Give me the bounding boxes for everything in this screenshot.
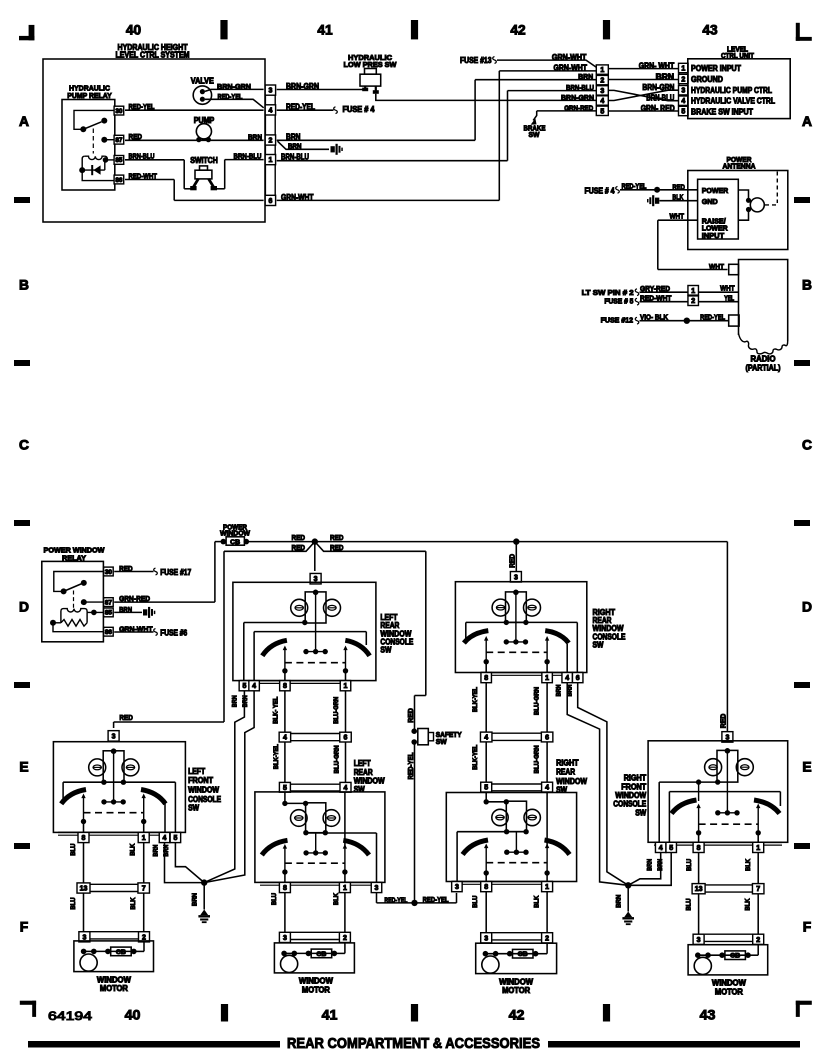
svg-text:BLU-GRN: BLU-GRN (333, 696, 340, 723)
svg-text:MOTOR: MOTOR (502, 986, 530, 995)
svg-text:5: 5 (173, 835, 177, 842)
svg-text:ANTENNA: ANTENNA (723, 162, 757, 171)
svg-text:30: 30 (115, 108, 123, 115)
svg-text:7: 7 (142, 886, 146, 893)
connector C3 strip (679, 63, 688, 116)
connector C2 pin 5 (596, 106, 608, 115)
connector C1 pin 6 (265, 195, 275, 205)
svg-text:1: 1 (681, 66, 685, 73)
relay K1 pin 86 (114, 175, 124, 184)
switch RIGHT REAR WINDOW SW (446, 758, 587, 882)
switch BRAKE SW and wire GRN-RED (524, 103, 597, 139)
svg-text:BLU-GRN: BLU-GRN (533, 687, 540, 715)
svg-text:B: B (802, 277, 812, 293)
svg-text:BLU: BLU (70, 897, 77, 909)
svg-text:6: 6 (545, 735, 549, 742)
svg-text:4: 4 (283, 735, 287, 742)
svg-text:MOTOR: MOTOR (715, 987, 743, 996)
svg-text:BLK: BLK (130, 897, 137, 909)
svg-text:SW: SW (529, 130, 541, 139)
wire RED drop to right rear console pin3 (510, 542, 517, 572)
svg-text:LEFT: LEFT (354, 759, 371, 768)
svg-text:3: 3 (514, 574, 518, 581)
svg-text:5: 5 (600, 108, 604, 115)
svg-text:BRN: BRN (192, 893, 199, 906)
svg-text:RED: RED (672, 182, 685, 191)
svg-text:3: 3 (484, 935, 488, 942)
svg-text:85: 85 (105, 610, 113, 617)
wire BLK-YEL left console pin8 down (273, 691, 285, 732)
svg-text:CB: CB (230, 539, 240, 546)
svg-text:WINDOW: WINDOW (97, 975, 132, 984)
svg-text:2: 2 (268, 138, 272, 145)
wire GRN-RED relay87 to CB (114, 542, 222, 604)
svg-text:BRN: BRN (657, 859, 664, 871)
wire BLK right front pin1 down (745, 853, 758, 884)
connector C1 pin 4 (265, 105, 275, 115)
svg-text:FUSE # 5: FUSE # 5 (604, 297, 633, 306)
module LEVEL CTRL UNIT (688, 44, 790, 118)
svg-text:BRAKE SW INPUT: BRAKE SW INPUT (691, 107, 753, 116)
svg-text:REAR COMPARTMENT & ACCESSORIES: REAR COMPARTMENT & ACCESSORIES (287, 1036, 540, 1052)
svg-text:RED: RED (510, 554, 517, 568)
svg-text:FUSE # 4: FUSE # 4 (343, 105, 376, 114)
svg-text:5: 5 (242, 683, 246, 690)
svg-text:FUSE #17: FUSE #17 (160, 568, 191, 577)
connector C2 pin 2 (596, 75, 608, 84)
svg-text:BLU-GRN: BLU-GRN (534, 745, 541, 773)
connector C2 pin 4 (596, 96, 608, 105)
svg-text:CONSOLE: CONSOLE (613, 800, 646, 809)
svg-text:4: 4 (545, 785, 549, 792)
svg-text:4: 4 (565, 675, 569, 682)
wire WHT antenna raise/lower to radio (658, 211, 728, 269)
connector C3 pin 3 (679, 86, 689, 95)
switch RIGHT FRONT WINDOW CONSOLE SW (613, 741, 787, 843)
wire RED feed line2 (114, 542, 426, 728)
svg-text:SW: SW (436, 737, 447, 746)
svg-text:RED: RED (721, 714, 728, 729)
wire BRN relay85 to suppressor (114, 605, 155, 618)
svg-text:1: 1 (545, 884, 549, 891)
wire BLU to motor1 (70, 893, 84, 932)
svg-text:43: 43 (702, 23, 718, 38)
svg-text:RED: RED (292, 533, 306, 542)
svg-text:8: 8 (697, 845, 701, 852)
relay K1 pin 87 (114, 135, 124, 144)
wire RED-WHT fuse5 to radio (604, 294, 738, 306)
wire BRN-GRN C2-4 to C3-3 (crossover) (608, 83, 678, 101)
svg-text:PUMP RELAY: PUMP RELAY (67, 91, 112, 100)
relay K2 pin 85 (104, 608, 114, 617)
svg-text:FRONT: FRONT (188, 776, 213, 785)
wire BLU-GRN to left rear window sw pin4 (333, 742, 345, 783)
svg-text:4: 4 (681, 98, 685, 105)
svg-text:FUSE #13: FUSE #13 (460, 56, 492, 65)
svg-text:42: 42 (510, 23, 526, 38)
svg-text:RED: RED (292, 543, 306, 552)
svg-text:41: 41 (317, 23, 333, 38)
svg-text:1: 1 (545, 675, 549, 682)
svg-text:SW: SW (635, 808, 647, 817)
wire BLK-YEL right console pin8 down (472, 683, 486, 732)
switch SWITCH (height ctrl) (190, 156, 218, 191)
svg-text:C: C (802, 437, 812, 453)
wire BLU-GRN left console pin1 down (333, 691, 345, 732)
svg-text:BLK-YEL: BLK-YEL (472, 745, 479, 770)
pump motor PUMP (194, 116, 215, 142)
svg-text:HYDRAULIC VALVE CTRL: HYDRAULIC VALVE CTRL (691, 97, 775, 106)
ground G1 BRN junction (192, 879, 210, 923)
svg-text:E: E (802, 759, 811, 775)
svg-text:CB: CB (316, 951, 326, 958)
svg-text:WINDOW: WINDOW (188, 786, 220, 795)
module POWER ANTENNA box (688, 155, 788, 250)
svg-text:4: 4 (252, 683, 256, 690)
switch LEFT REAR WINDOW CONSOLE SW (233, 582, 414, 680)
svg-text:85: 85 (115, 157, 123, 164)
svg-text:RADIO: RADIO (751, 355, 776, 364)
wire VIO-BLK fuse12 to radio (601, 313, 729, 325)
wire BRN-BLU C2-3 to C3-4 (crossover) (608, 90, 678, 102)
svg-text:BLK: BLK (745, 898, 752, 910)
svg-text:BRN: BRN (232, 695, 239, 707)
wire BLK to motor3 (533, 892, 547, 933)
wire BLK-YEL to right rear window sw pin5 (472, 742, 486, 783)
svg-text:BLK: BLK (333, 893, 340, 905)
svg-text:8: 8 (82, 835, 86, 842)
connector RED-YEL at radio (729, 315, 739, 326)
svg-text:REAR: REAR (556, 768, 575, 777)
connector pins left rear console 5 4 8 1 (239, 681, 351, 691)
module RADIO (PARTIAL) (739, 260, 788, 373)
svg-text:3: 3 (268, 88, 272, 95)
svg-text:2: 2 (681, 77, 685, 84)
svg-text:BLK-YEL: BLK-YEL (472, 687, 479, 712)
connector C3 pin 4 (679, 96, 689, 105)
svg-text:4: 4 (268, 107, 272, 114)
svg-text:64194: 64194 (48, 1009, 92, 1023)
connector C2 pin 1 (596, 65, 608, 74)
svg-text:WINDOW: WINDOW (299, 977, 334, 986)
svg-text:13: 13 (80, 886, 88, 893)
svg-text:40: 40 (125, 1008, 141, 1024)
svg-text:BLU: BLU (70, 843, 77, 855)
svg-text:E: E (19, 759, 28, 775)
hydraulic height level ctrl system box (43, 43, 265, 222)
svg-text:FUSE # 4: FUSE # 4 (585, 186, 616, 195)
svg-text:POWER: POWER (702, 186, 729, 195)
svg-text:BLK- YEL: BLK- YEL (273, 697, 280, 724)
wire BRN-GRN C1-3 to low pres sw (277, 82, 366, 91)
svg-text:13: 13 (695, 886, 703, 893)
svg-text:2: 2 (756, 937, 760, 944)
wire BLU left front pin8 to motor connector (70, 843, 84, 883)
svg-text:3: 3 (455, 884, 459, 891)
svg-text:SWITCH: SWITCH (190, 156, 218, 165)
svg-text:4: 4 (659, 845, 663, 852)
svg-text:BLK: BLK (533, 895, 540, 907)
svg-text:1: 1 (142, 835, 146, 842)
svg-text:1: 1 (691, 288, 695, 295)
svg-text:INPUT: INPUT (702, 231, 725, 240)
svg-text:30: 30 (105, 569, 113, 576)
wire RED-YEL valve to C1-4 (205, 92, 264, 108)
connector pin 3 left front console (108, 731, 119, 742)
connector C2 pin 3 (596, 86, 608, 95)
svg-text:BLU: BLU (686, 859, 693, 871)
svg-text:MOTOR: MOTOR (302, 985, 330, 994)
connector pins right rear console 8 1 4 6 (481, 673, 583, 683)
svg-text:B: B (19, 277, 29, 293)
switch HYDRAULIC LOW PRES SW (344, 53, 398, 94)
wire BRN right console pin6 to ground (566, 683, 628, 886)
svg-text:F: F (20, 919, 28, 935)
svg-text:BRN: BRN (242, 695, 249, 707)
svg-text:3: 3 (697, 937, 701, 944)
svg-text:8: 8 (484, 675, 488, 682)
svg-text:2: 2 (545, 935, 549, 942)
wire GRN-WHT relay86 to fuse6 (114, 624, 188, 637)
connector C3 pin 2 (679, 74, 689, 83)
svg-text:RIGHT: RIGHT (556, 758, 579, 767)
wire BLU to motor2 (271, 893, 285, 933)
svg-text:2: 2 (343, 935, 347, 942)
svg-text:WINDOW: WINDOW (712, 979, 747, 988)
svg-text:RED-YEL: RED-YEL (700, 313, 725, 322)
connector pins 13 7 (left front) (77, 883, 149, 893)
svg-text:5: 5 (681, 109, 685, 116)
svg-text:BLK: BLK (130, 843, 137, 855)
svg-text:FUSE #6: FUSE #6 (160, 628, 188, 637)
svg-text:REAR: REAR (354, 768, 373, 777)
svg-text:BRN: BRN (647, 859, 654, 871)
svg-text:RED: RED (119, 713, 133, 722)
wire BRN-GRN low pres sw to C2-4 (376, 93, 597, 102)
wire BRN console pin4 to ground (204, 691, 254, 883)
relay K2 pin 86 (104, 627, 114, 636)
svg-text:(PARTIAL): (PARTIAL) (746, 364, 781, 373)
svg-text:87: 87 (105, 599, 113, 606)
svg-text:BRN: BRN (152, 844, 159, 856)
svg-text:86: 86 (105, 629, 113, 636)
relay K1 pin 30 (114, 106, 124, 115)
wire GRN-WHT C2-1 to C3-1 (608, 61, 678, 70)
svg-text:RED: RED (330, 533, 344, 542)
svg-text:SW: SW (380, 646, 392, 655)
connector C1 pin 3 (265, 85, 275, 95)
svg-text:GRN-RED: GRN-RED (564, 103, 593, 112)
svg-text:D: D (802, 599, 812, 615)
svg-text:A: A (802, 113, 812, 129)
svg-text:POWER INPUT: POWER INPUT (691, 64, 741, 73)
wire BLU to motor4 (686, 894, 699, 934)
wire BRN-GRN valve to C1-3 (205, 82, 264, 91)
svg-text:86: 86 (115, 177, 123, 184)
svg-text:F: F (803, 919, 811, 935)
svg-text:LOW PRES SW: LOW PRES SW (344, 60, 398, 69)
fuse FUSE #4 label (343, 105, 376, 114)
wire RED feed line1 CB to right front console (246, 533, 727, 732)
svg-text:LT SW PIN # 2: LT SW PIN # 2 (582, 288, 634, 297)
connector radio pin 2 (688, 296, 699, 306)
svg-text:HYDRAULIC PUMP CTRL: HYDRAULIC PUMP CTRL (691, 86, 772, 95)
motor M3 WINDOW MOTOR (42) (476, 933, 557, 995)
svg-text:VALVE: VALVE (191, 77, 214, 86)
connector pin 3 right front console (722, 732, 733, 743)
svg-text:42: 42 (509, 1008, 525, 1024)
svg-text:RIGHT: RIGHT (624, 774, 647, 783)
wire BRN-BLU relay85 to switch (125, 152, 192, 189)
connector C1 pin 2 (265, 135, 275, 145)
svg-text:4: 4 (344, 785, 348, 792)
svg-text:3: 3 (112, 733, 116, 740)
connector C3 pin 5 (679, 106, 689, 115)
svg-text:BRN: BRN (555, 684, 562, 696)
svg-text:BRN: BRN (566, 684, 573, 696)
svg-text:RED-YEL: RED-YEL (408, 752, 415, 780)
svg-text:GRN-WHT: GRN-WHT (554, 63, 588, 72)
svg-text:5: 5 (669, 845, 673, 852)
wire BRN left front pin5 to ground (163, 843, 204, 883)
wire RED-YEL relay30 to C1-4 (125, 102, 264, 111)
wire BLK to motor2 (333, 893, 345, 933)
wire GRN-RED C2-5 to C3-5 (608, 104, 678, 113)
svg-text:BRN-GRN: BRN-GRN (561, 93, 594, 102)
svg-text:CB: CB (518, 951, 528, 958)
svg-text:CONSOLE: CONSOLE (188, 795, 221, 804)
wire BLU to motor3 (472, 892, 486, 933)
wire RED line2 to safety switch (408, 551, 426, 729)
wire RED antenna power (620, 182, 698, 193)
wire BLK to motor4 (745, 894, 759, 934)
svg-text:A: A (19, 113, 29, 129)
wire BLK-YEL to left rear window sw pin5 (273, 742, 285, 783)
relay K1 pin 85 (114, 156, 124, 165)
svg-text:4: 4 (163, 835, 167, 842)
connector pins left front console 8 1 4 5 (58, 832, 181, 842)
valve solenoid VALVE (191, 77, 214, 105)
svg-text:8: 8 (283, 885, 287, 892)
svg-text:1: 1 (343, 885, 347, 892)
svg-text:87: 87 (115, 137, 123, 144)
wire RED relay87 through pump to C1-2 (125, 132, 264, 141)
svg-text:SW: SW (188, 804, 200, 813)
svg-text:3: 3 (375, 885, 379, 892)
svg-text:BLU: BLU (472, 895, 479, 907)
svg-text:3: 3 (681, 88, 685, 95)
svg-text:1: 1 (344, 683, 348, 690)
svg-text:4: 4 (600, 98, 604, 105)
svg-text:BLK: BLK (672, 193, 683, 202)
wire BLU-GRN right console pin1 down (533, 683, 547, 732)
svg-text:CB: CB (116, 949, 126, 956)
wire BRN right front pin4 to ground (628, 853, 661, 886)
connector C3 pin 1 (679, 63, 689, 72)
connector pins right front console 4 5 8 1 (654, 842, 782, 852)
label GRN-WHT at C1-6 (281, 193, 314, 202)
svg-text:BLU: BLU (686, 898, 693, 910)
wire RED-YEL safety sw to junction (377, 742, 457, 906)
connector WHT at radio (709, 262, 739, 275)
fuse FUSE #13 and wire GRN-WHT (460, 53, 596, 67)
svg-text:RED: RED (330, 543, 344, 552)
wire BRN branch to suppressor (278, 141, 343, 155)
svg-text:8: 8 (283, 683, 287, 690)
svg-text:40: 40 (126, 23, 142, 38)
ground G-antenna and wire BLK (647, 193, 698, 207)
svg-text:BRN-BLU: BRN-BLU (566, 83, 594, 92)
wire GRY-RED lt sw to radio (582, 283, 739, 297)
svg-text:7: 7 (756, 886, 760, 893)
connector strip C1 (x266-276) (265, 85, 275, 205)
wire RED-YEL C1-4 to fuse4 (277, 102, 338, 113)
svg-text:1: 1 (756, 845, 760, 852)
svg-text:FUSE #12: FUSE #12 (601, 316, 634, 325)
wire BRN left front pin4 to ground (152, 843, 204, 883)
wire BLK to motor1 (130, 893, 144, 932)
svg-text:BLK: BLK (745, 859, 752, 871)
svg-text:BLK-YEL: BLK-YEL (273, 744, 280, 769)
svg-text:43: 43 (700, 1008, 716, 1024)
connector C2 strip (598, 65, 607, 115)
wire RED relay30 to fuse17 (114, 564, 191, 577)
svg-text:CB: CB (730, 953, 740, 960)
svg-text:BRN: BRN (578, 72, 594, 81)
connector pins 4 6 (left rear) (279, 732, 351, 742)
svg-text:3: 3 (283, 935, 287, 942)
wire BRN right front pin5 to ground (628, 853, 671, 886)
switch LEFT REAR WINDOW SW (255, 759, 385, 882)
svg-text:SW: SW (593, 641, 605, 650)
wire BRN-BLU C1-1 to C2-3 (277, 83, 597, 161)
svg-text:WINDOW: WINDOW (499, 977, 534, 986)
svg-text:C: C (19, 437, 29, 453)
connector pins right rear window sw 3 8 1 (452, 882, 553, 892)
svg-text:BLU-GRN: BLU-GRN (333, 745, 340, 773)
svg-text:WHT: WHT (709, 262, 724, 271)
connector pin 3 left rear console (310, 573, 321, 584)
motor M-antenna (738, 172, 777, 221)
svg-text:GRN- RED: GRN- RED (641, 104, 675, 113)
fuse FUSE #4 feed to antenna (585, 182, 647, 196)
svg-text:BLU: BLU (271, 893, 278, 905)
wire BRN C2-2 to C3-2 (608, 73, 678, 82)
wire GRN-WHT C1-6 to C2-1 (277, 63, 597, 200)
svg-text:5: 5 (283, 785, 287, 792)
relay K2 POWER WINDOW RELAY (42, 546, 106, 642)
svg-text:1: 1 (600, 67, 604, 74)
wire BRN-BLU switch to C1-1 (217, 152, 264, 189)
connector pins left rear window sw 8 1 3 (260, 882, 382, 892)
svg-text:1: 1 (268, 157, 272, 164)
motor M2 WINDOW MOTOR (41) (274, 932, 354, 994)
wire BLU-GRN to right rear window sw pin4 (534, 742, 548, 783)
svg-text:6: 6 (576, 675, 580, 682)
ground G2 BRN junction (616, 882, 634, 925)
wire BRN console pin5 to ground (204, 691, 244, 883)
connector pins 4 6 (right rear) (480, 732, 552, 742)
relay K2 pin 30 (104, 567, 114, 576)
wire BLU right front pin8 down (686, 853, 699, 884)
svg-text:MOTOR: MOTOR (100, 984, 128, 993)
connector C1 pin 1 (265, 155, 275, 165)
motor M1 WINDOW MOTOR (40) (74, 932, 154, 993)
svg-text:2: 2 (691, 298, 695, 305)
svg-text:BRN: BRN (288, 141, 302, 150)
relay K1 HYDRAULIC PUMP RELAY (62, 83, 115, 190)
connector radio pin 1 (688, 286, 699, 296)
